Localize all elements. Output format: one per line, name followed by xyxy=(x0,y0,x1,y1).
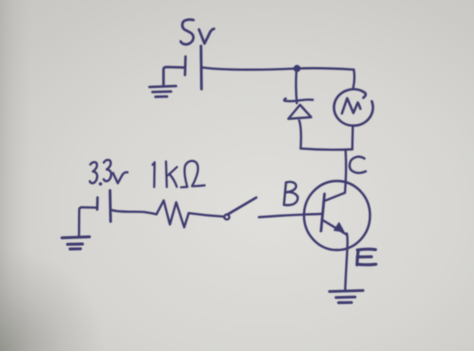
diode D1 xyxy=(284,99,313,119)
label B xyxy=(284,182,298,205)
resistor R1 1k xyxy=(157,201,189,228)
battery B2 3.3V xyxy=(97,191,110,222)
switch contact xyxy=(224,215,229,220)
transistor collector stroke xyxy=(324,193,345,202)
ground (emitter) xyxy=(330,291,364,303)
wire: diode to bottom rail xyxy=(299,120,301,148)
wire: junction down to diode xyxy=(295,70,298,103)
wire: emitter down to ground xyxy=(345,234,347,292)
switch blade xyxy=(228,198,257,215)
motor M1 xyxy=(334,89,373,125)
label 3.3v xyxy=(90,160,128,186)
wire: battery to junction to right corner xyxy=(203,68,354,70)
transistor base bar xyxy=(321,194,325,231)
battery B1 5V xyxy=(185,46,202,89)
transistor Q1 circle xyxy=(304,181,370,250)
wire: switch to base xyxy=(259,214,322,217)
node junction dot xyxy=(293,65,300,72)
label 1kOhm xyxy=(153,161,205,187)
wire: corner down to motor xyxy=(353,70,354,88)
label C xyxy=(350,157,366,173)
ground (3.3v supply) xyxy=(62,237,90,249)
transistor emitter stroke with arrow xyxy=(323,220,347,235)
wire: bottom rail (diode to motor branch) xyxy=(301,149,353,150)
wire: battery to resistor xyxy=(112,210,157,214)
label 5v xyxy=(181,20,214,45)
wire: ground up to battery xyxy=(79,207,96,236)
label E xyxy=(357,249,376,265)
ground (5v supply) xyxy=(150,67,185,97)
wire: motor bottom to rail xyxy=(351,126,354,149)
wire: resistor to switch xyxy=(189,213,225,217)
wire: rail down to collector xyxy=(345,151,346,193)
